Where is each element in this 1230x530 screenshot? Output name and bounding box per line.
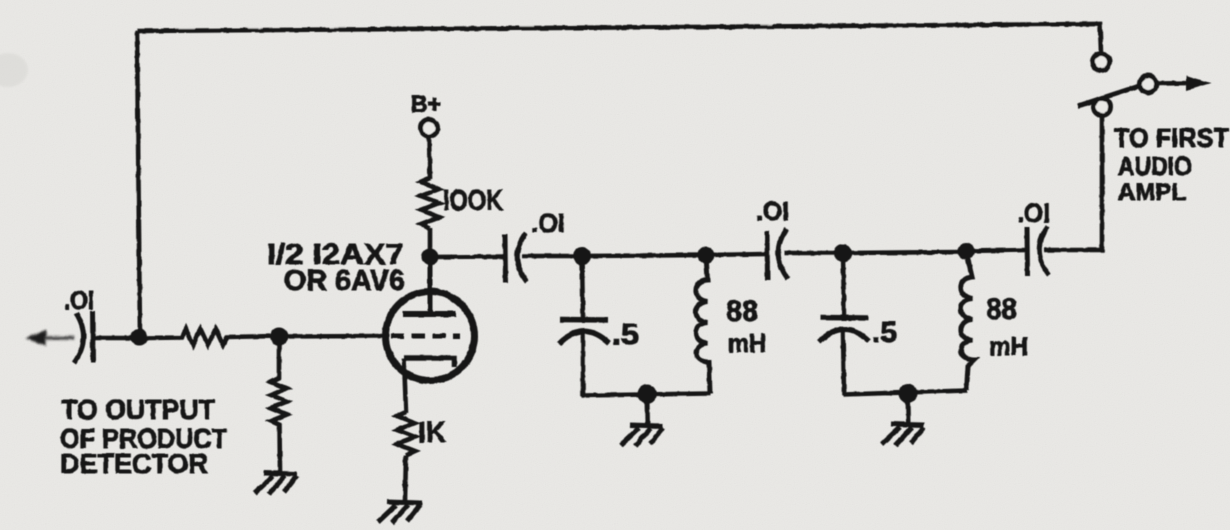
- triode U1 plate: [403, 311, 456, 317]
- wire: filter2 bottom: [843, 391, 967, 395]
- capacitor C1 .01 input: curved plate: [74, 313, 84, 363]
- svg-text:AMPL: AMPL: [1118, 179, 1186, 206]
- capacitor C3 .5: top lead: [582, 256, 583, 318]
- switch output arrow: [1157, 81, 1190, 86]
- wire: node E to C4: [706, 254, 766, 255]
- resistor R3 100K (vertical): [421, 178, 439, 228]
- capacitor C2 .01: straight plate: [503, 234, 509, 283]
- wire: node H to C6: [966, 250, 1026, 251]
- capacitor C5 .5: curved plate: [819, 329, 869, 342]
- B+ terminal circle: [421, 120, 438, 137]
- svg-text:88: 88: [986, 293, 1017, 326]
- svg-text:DETECTOR: DETECTOR: [60, 448, 208, 479]
- capacitor C5 .5: bottom lead: [843, 331, 844, 395]
- inductor L1 88mH: [696, 255, 710, 394]
- wire: C6 to switch riser: [1044, 116, 1102, 250]
- triode U1 plate lead: [428, 257, 433, 313]
- wire: node B to tube grid: [279, 334, 385, 339]
- wire: filter1 bottom: [582, 394, 710, 396]
- node G: [834, 244, 852, 262]
- svg-text:.OI: .OI: [531, 208, 565, 238]
- node B (grid node): [270, 328, 288, 346]
- svg-text:TO FIRST: TO FIRST: [1114, 123, 1229, 153]
- node F (filter1 ground node): [638, 385, 657, 404]
- resistor R4 1K (vertical): [397, 412, 415, 455]
- node H (inductor2 top): [958, 243, 975, 260]
- triode U1 envelope: [386, 292, 475, 381]
- svg-text:AUDIO: AUDIO: [1118, 151, 1192, 181]
- resistor R2 grid resistor (vertical): [271, 345, 287, 472]
- wire: B+ to R3: [429, 137, 430, 179]
- capacitor C4 .01: straight plate: [765, 231, 771, 280]
- ground below filter1: [621, 398, 663, 446]
- capacitor C5 .5: straight plate: [820, 315, 868, 321]
- node D: [573, 247, 591, 265]
- capacitor C2 .01: curved plate: [517, 233, 527, 282]
- triode U1 cathode: [404, 358, 454, 367]
- switch fixed contact (top circle): [1093, 54, 1110, 71]
- svg-text:B+: B+: [411, 91, 441, 118]
- wire: cathode down to R4: [404, 358, 406, 413]
- svg-text:IOOK: IOOK: [443, 185, 503, 217]
- wire: node G to node H: [843, 252, 966, 253]
- wire: node C to C2: [430, 254, 504, 259]
- triode U1 grid (dashed): [391, 334, 460, 339]
- switch lower contact (circle): [1094, 99, 1111, 116]
- wire: top feedback wire: [137, 24, 1101, 53]
- wire: node D to node E: [582, 255, 706, 256]
- wire: left vertical from top wire to input node: [137, 31, 140, 338]
- ground below filter2: [882, 398, 924, 445]
- capacitor C3 .5: bottom lead: [581, 333, 586, 396]
- scan smudge top-left: [0, 53, 28, 87]
- svg-text:.5: .5: [872, 317, 897, 349]
- wire: R3 to node C: [428, 228, 433, 257]
- svg-text:mH: mH: [989, 331, 1028, 361]
- svg-text:.OI: .OI: [756, 196, 789, 226]
- node C (plate node): [422, 249, 439, 266]
- capacitor C4 .01: curved plate: [778, 229, 788, 279]
- switch pole circle: [1140, 76, 1157, 93]
- wire: C2 to node D: [522, 254, 582, 259]
- wire: C1 to node A: [94, 336, 139, 341]
- capacitor C5 .5: top lead: [843, 253, 844, 316]
- capacitor C1 .01 input: straight plate: [90, 311, 96, 362]
- resistor R1 series (horizontal): [147, 329, 278, 345]
- svg-text:TO OUTPUT: TO OUTPUT: [61, 394, 215, 425]
- wire: R4 to ground: [405, 455, 406, 501]
- svg-text:.OI: .OI: [1017, 198, 1050, 228]
- ground below R2: [255, 473, 297, 494]
- svg-text:88: 88: [726, 295, 758, 328]
- svg-text:.OI: .OI: [64, 285, 94, 315]
- capacitor C6 .01: straight plate: [1025, 227, 1031, 276]
- capacitor C6 .01: curved plate: [1039, 226, 1049, 275]
- node E (inductor1 top): [698, 247, 715, 264]
- inductor L2 88mH: [961, 251, 974, 390]
- switch arm: [1078, 86, 1139, 106]
- input arrow to product detector (smeared): [25, 330, 74, 346]
- svg-text:mH: mH: [728, 328, 766, 358]
- svg-text:IK: IK: [418, 417, 446, 449]
- wire: C4 to node G: [784, 251, 843, 256]
- ground below R4: [378, 502, 422, 523]
- svg-text:.5: .5: [612, 319, 639, 351]
- svg-text:OR 6AV6: OR 6AV6: [284, 265, 405, 297]
- capacitor C3 .5: curved plate: [559, 331, 609, 344]
- capacitor C3 .5: straight plate: [560, 317, 608, 323]
- node A (junction input/top wire): [131, 329, 148, 346]
- node I (filter2 ground node): [899, 384, 918, 403]
